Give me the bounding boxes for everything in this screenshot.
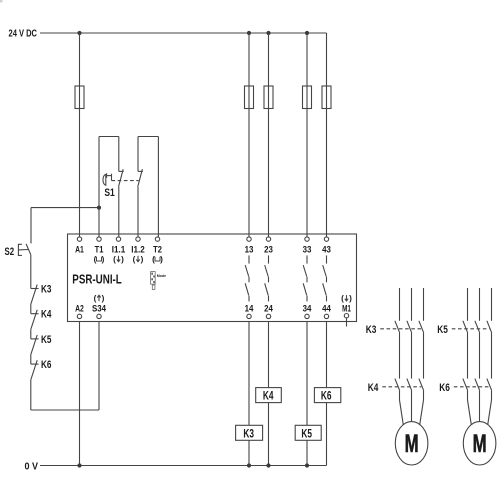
wire 24V rail to terminal 23	[268, 33, 270, 237]
wire phase 1 to K5 contact	[467, 288, 469, 321]
feedback NC contact of contactor K5	[31, 335, 39, 354]
svg-text:43: 43	[322, 244, 331, 255]
safety contact pair 33-34	[303, 255, 307, 301]
svg-text:S34: S34	[92, 304, 107, 315]
wire K5 to K6 phase 3	[491, 333, 493, 379]
junction on 24V rail at 23 branch	[266, 31, 270, 35]
feedback NC contact of contactor K3	[31, 285, 39, 304]
feedback NC contact of contactor K4	[31, 310, 39, 329]
svg-text:24 V DC: 24 V DC	[9, 29, 38, 40]
wire down to S1 contact 1	[118, 137, 120, 172]
feedback NC contact of contactor K6	[31, 360, 39, 379]
svg-text:0 V: 0 V	[25, 461, 39, 472]
svg-text:(: (	[94, 294, 97, 303]
svg-text:): )	[102, 294, 105, 303]
svg-text:): )	[141, 255, 144, 264]
wire S2 to K3 feedback contact	[30, 255, 32, 289]
svg-text:K6: K6	[321, 389, 332, 403]
terminal 33	[305, 237, 309, 241]
terminal T1	[97, 237, 101, 241]
terminal I1.2	[136, 237, 140, 241]
motor M (right)	[463, 422, 496, 465]
wire terminal to coil K5	[306, 322, 308, 466]
svg-text:M: M	[473, 430, 487, 458]
svg-text:K3: K3	[366, 324, 377, 336]
wire S2 to T1 node	[31, 207, 99, 209]
wire S1 contact1 to I1.1	[118, 187, 120, 237]
svg-text:13: 13	[245, 244, 254, 255]
junction on 0V rail at K5	[305, 463, 309, 467]
wire phase 3 to K3 contact	[423, 288, 425, 321]
svg-text:(: (	[341, 294, 344, 303]
svg-text:M1: M1	[342, 304, 351, 315]
wire 24V rail to terminal 33	[306, 33, 308, 237]
wire S1 loop2 top	[138, 136, 158, 138]
terminal 24	[266, 314, 270, 318]
e-stop S1 NC contact 1	[119, 169, 124, 187]
svg-text:): )	[121, 255, 124, 264]
svg-text:K5: K5	[41, 334, 52, 346]
wire 24V rail to terminal A1	[79, 33, 81, 237]
wire K3 to K4 phase 2	[411, 333, 413, 379]
contactor coil K5	[295, 425, 321, 440]
wire phase 2 to K3 contact	[411, 288, 413, 321]
terminal S34	[97, 314, 101, 318]
terminal 13	[247, 237, 251, 241]
wire K3 to K4	[30, 304, 32, 314]
junction on 24V rail at 13 branch	[247, 31, 251, 35]
main contacts of contactor K6	[463, 379, 492, 391]
mechanical link K6 (dashed)	[454, 386, 490, 388]
terminal A1	[77, 237, 81, 241]
S1 mechanical link (dashed)	[112, 180, 139, 182]
mode DIP switch icon	[151, 272, 156, 290]
svg-text:T2: T2	[153, 244, 162, 255]
wire return up to S34	[98, 322, 100, 411]
svg-text:24: 24	[264, 304, 273, 315]
terminal A2	[77, 314, 81, 318]
wire K3 to K4 phase 1	[399, 333, 401, 379]
wire loop2 down to T2	[157, 137, 159, 237]
wire S1 loop1 top	[99, 136, 119, 138]
svg-text:34: 34	[303, 304, 312, 315]
safety contact pair 43-44	[323, 255, 327, 301]
junction on 0V rail at K3	[247, 463, 251, 467]
svg-text:PSR-UNI-L: PSR-UNI-L	[72, 273, 122, 287]
svg-text:K6: K6	[439, 382, 450, 394]
e-stop S1 NC contact 2	[138, 169, 143, 187]
terminal M1	[344, 314, 348, 318]
wire K5 to K6	[30, 354, 32, 364]
terminal T2	[155, 237, 159, 241]
wire T1 up to S1 loop	[98, 137, 100, 237]
wire K3 to K4 phase 3	[423, 333, 425, 379]
main contacts of contactor K3	[395, 321, 424, 333]
wire 24V rail to terminal 13	[248, 33, 250, 237]
mechanical link K4 (dashed)	[382, 386, 421, 388]
wire terminal to coil K6	[326, 322, 328, 466]
wire feedback return bottom run	[31, 409, 99, 411]
svg-text:(: (	[133, 255, 136, 264]
svg-text:K4: K4	[41, 309, 52, 321]
svg-text:S1: S1	[104, 187, 115, 199]
wire I1.2 up to S1 loop2	[137, 187, 139, 237]
fuse F2 on 13 branch	[245, 86, 254, 109]
svg-text:K4: K4	[263, 389, 274, 403]
safety contact pair 23-24	[265, 255, 269, 301]
wire phase 3 to K5 contact	[491, 288, 493, 321]
fuse F5 on 43 branch	[322, 86, 331, 109]
wire phase 1 to K3 contact	[399, 288, 401, 321]
0V return rail	[40, 465, 327, 467]
svg-text:A2: A2	[75, 304, 84, 315]
junction on 0V rail at A2	[77, 463, 81, 467]
terminal 43	[324, 237, 328, 241]
main contacts of contactor K5	[463, 321, 492, 333]
wire phase 2 to K5 contact	[479, 288, 481, 321]
svg-text:): )	[349, 294, 352, 303]
wire K6 to bottom return	[30, 380, 32, 411]
fuse F4 on 33 branch	[303, 86, 312, 109]
terminal I1.1	[116, 237, 120, 241]
wire K5 to K6 phase 1	[467, 333, 469, 379]
motor M (left)	[395, 422, 428, 465]
svg-text:23: 23	[264, 244, 273, 255]
wire S1 contact2 top	[137, 137, 139, 172]
contactor coil K6	[314, 388, 340, 403]
svg-text:): )	[160, 255, 163, 264]
svg-text:K3: K3	[243, 426, 254, 440]
pushbutton S2 (NO reset button)	[18, 244, 30, 256]
mechanical link K5 (dashed)	[452, 328, 490, 330]
svg-text:44: 44	[322, 304, 331, 315]
wire terminal to coil K4	[268, 322, 270, 466]
svg-text:K5: K5	[301, 426, 312, 440]
terminal 23	[266, 237, 270, 241]
contactor coil K4	[256, 388, 282, 403]
wire K5 to K6 phase 2	[479, 333, 481, 379]
contactor coil K3	[236, 425, 263, 440]
svg-text:K6: K6	[41, 359, 51, 371]
svg-text:A1: A1	[75, 244, 84, 255]
wire K4 to K5	[30, 329, 32, 339]
fuse F1 on A1 branch	[75, 86, 84, 109]
svg-text:S2: S2	[5, 246, 15, 258]
svg-text:): )	[102, 255, 105, 264]
fuse F3 on 23 branch	[264, 86, 273, 109]
e-stop S1 mushroom actuator	[103, 173, 112, 185]
svg-text:I1.2: I1.2	[131, 244, 145, 255]
safety relay PSR-UNI-L body	[68, 234, 357, 322]
junction on 0V rail at K4	[266, 463, 270, 467]
wires K6 to motor	[468, 391, 492, 428]
wire A2 to 0V rail	[79, 322, 81, 466]
svg-text:I1.1: I1.1	[112, 244, 126, 255]
svg-text:14: 14	[245, 304, 254, 315]
node junction S2 wire to T1 line	[97, 206, 101, 210]
svg-text:K4: K4	[368, 382, 379, 394]
terminal 14	[247, 314, 251, 318]
svg-text:33: 33	[303, 244, 312, 255]
mechanical link K3 (dashed)	[380, 328, 421, 330]
safety contact pair 13-14	[245, 255, 249, 301]
svg-text:M: M	[405, 430, 419, 458]
+24V supply rail	[40, 32, 327, 34]
svg-text:Mode: Mode	[157, 274, 166, 278]
svg-text:K5: K5	[437, 324, 448, 336]
svg-text:(: (	[113, 255, 116, 264]
terminal 44	[324, 314, 328, 318]
terminal 34	[305, 314, 309, 318]
wires K4 to motor	[400, 391, 424, 428]
junction on 24V rail at 33 branch	[305, 31, 309, 35]
wire terminal to coil K3	[248, 322, 250, 466]
svg-text:K3: K3	[41, 284, 51, 296]
wire 24V rail to terminal 43	[326, 33, 328, 237]
wire down to S2 contact	[30, 208, 32, 244]
junction on 24V rail at A1 branch	[77, 31, 81, 35]
main contacts of contactor K4	[395, 379, 424, 391]
stub wire at M1	[346, 318, 348, 326]
svg-text:T1: T1	[95, 244, 104, 255]
scan artifact top-left corner	[0, 0, 3, 3]
